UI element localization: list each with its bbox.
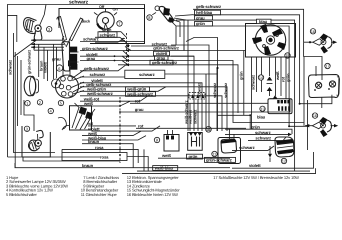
wire rosa 1 — [62, 145, 138, 163]
wire arrow into 13 — [273, 96, 277, 99]
wire grau mid — [80, 55, 233, 113]
connector dashed mid — [126, 33, 128, 66]
wire left vertical 2 — [14, 33, 56, 153]
callout 6 — [56, 65, 62, 71]
svg-text:gelb-schwarz: gelb-schwarz — [196, 4, 221, 9]
callout 14 — [258, 75, 264, 80]
connector dashed box center — [189, 93, 205, 99]
rear blinker 16 bottom — [305, 117, 338, 137]
wire weiss-rot left bundle — [80, 96, 148, 102]
wire weiss label bottom mid — [158, 153, 230, 158]
callout 2 — [37, 100, 42, 105]
wire tail feeds — [309, 66, 332, 108]
callout 11 — [212, 151, 217, 156]
callout 12 — [281, 158, 287, 163]
svg-text:16 Blinkleuchte hinten 12V 5W: 16 Blinkleuchte hinten 12V 5W — [127, 192, 178, 197]
wire verticals to headlamp — [34, 44, 57, 81]
rear blinker 16 top — [309, 34, 337, 54]
wire gelb-schwarz mid — [118, 60, 238, 113]
wire gruen top right — [176, 21, 308, 126]
wire braun bottom bus — [15, 163, 230, 168]
svg-text:grün-schwarz: grün-schwarz — [27, 50, 32, 74]
horn 1 — [24, 76, 60, 96]
wire grau top right — [176, 15, 295, 104]
wire gelb-schwarz left bundle — [80, 65, 126, 71]
svg-text:schwarz: schwarz — [239, 145, 255, 150]
front blinker 3 bottom box — [22, 126, 50, 157]
wire mid verticals to rear — [300, 103, 309, 105]
callout 8 — [147, 15, 152, 20]
callout 5 — [58, 100, 63, 105]
junction dots lower connector — [119, 100, 121, 156]
legend column 2 — [81, 175, 119, 197]
callout 10 — [206, 127, 212, 133]
svg-text:blau: blau — [259, 19, 268, 24]
wire schwarz boxed left bundle — [80, 68, 217, 131]
svg-text:schwarz: schwarz — [212, 83, 217, 98]
regulator blob 12 — [275, 137, 294, 157]
svg-text:schwarz: schwarz — [8, 60, 13, 75]
wire left arrows to switch — [31, 40, 64, 50]
callout 16 bottom — [312, 113, 318, 118]
magneto enclosure 15 — [246, 24, 296, 58]
connector block dark — [68, 60, 77, 66]
wire gruen from switch — [99, 27, 121, 32]
wire gelb-schwarz top right — [193, 4, 304, 42]
wire weiss left bundle — [80, 101, 130, 106]
label blau magneto — [257, 19, 272, 24]
wire gelb-schwarz 2 left bundle — [80, 82, 227, 131]
wire schwarz line 2 near 12 — [248, 135, 286, 140]
legend column 1 — [6, 175, 68, 197]
svg-text:grün-schwarz: grün-schwarz — [153, 46, 179, 51]
callout 16 top — [310, 29, 316, 34]
headlamp 2 with connector — [56, 67, 85, 98]
front blinker 3 top — [24, 5, 46, 41]
svg-text:Off: Off — [99, 5, 105, 9]
wire arrow small into 13 left — [274, 96, 277, 99]
callout 17 — [325, 63, 331, 68]
wire schwarz upper mid — [80, 36, 144, 41]
wire verticals from lever bus down — [176, 20, 188, 56]
callout 3 — [47, 27, 52, 32]
svg-text:rosa: rosa — [100, 155, 109, 160]
legend column 4 — [213, 175, 299, 180]
svg-text:weiß-blau: weiß-blau — [154, 166, 174, 171]
svg-text:schwarz: schwarz — [255, 135, 271, 140]
svg-text:weiß-schwarz: weiß-schwarz — [86, 91, 113, 96]
wire weiss-schwarz left bundle — [80, 91, 222, 131]
svg-text:grau: grau — [196, 15, 205, 20]
wire rosa loop left — [62, 149, 144, 171]
wire magneto down leads — [252, 57, 287, 115]
svg-text:5 Blinklichtschalter: 5 Blinklichtschalter — [6, 192, 38, 197]
wire schwarz line 3 near 12 — [232, 145, 274, 150]
svg-text:rot: rot — [135, 99, 141, 104]
svg-text:violett: violett — [43, 61, 48, 73]
wire hell-blau top right — [193, 10, 300, 104]
svg-text:schwarz: schwarz — [250, 75, 255, 90]
spark plug 14 — [267, 57, 273, 96]
wire braun lower — [82, 139, 133, 168]
wire rosa 2 boxed — [62, 153, 148, 172]
wire weiss-blau bottom bus — [137, 166, 310, 172]
wire weiss-gruen left bundle — [80, 86, 166, 91]
svg-text:11 Gleichrichter Hupe: 11 Gleichrichter Hupe — [81, 192, 118, 197]
wire violett bottom right — [232, 152, 314, 168]
wire violett mid — [80, 51, 194, 62]
control lights cluster 4 — [70, 103, 96, 130]
legend column 3 — [127, 175, 181, 197]
electronics box 13 — [268, 99, 292, 114]
svg-text:braun: braun — [82, 163, 94, 168]
wire drop from switch to bus — [95, 29, 126, 42]
svg-text:violett: violett — [249, 163, 261, 168]
callout 9 — [154, 137, 159, 142]
connector arrows mid — [126, 45, 130, 67]
wire bottom left corners — [8, 40, 121, 168]
label gruen under 10 — [187, 154, 203, 159]
blinker switch 5 lever — [57, 17, 83, 72]
cable curves left of cluster — [58, 118, 70, 131]
ignition switch 7 — [94, 9, 117, 29]
wire left vertical 3 — [18, 56, 35, 131]
wire grau right mid — [120, 99, 290, 112]
junction dots misc — [249, 114, 251, 116]
callout 1 — [25, 101, 30, 106]
svg-text:hell-blau: hell-blau — [196, 10, 213, 15]
label gruen-schwarz under 11 — [205, 157, 236, 162]
wire weiss lower — [82, 131, 141, 136]
svg-text:rot: rot — [138, 123, 144, 128]
callout 13 — [260, 106, 266, 111]
wire magneto left connects — [217, 51, 252, 130]
svg-text:schwarz: schwarz — [83, 36, 99, 41]
wire gruen mid right — [225, 125, 292, 134]
svg-text:gelb-schwarz: gelb-schwarz — [84, 66, 109, 71]
callout 7 — [117, 21, 122, 26]
svg-text:grün: grün — [238, 71, 243, 80]
wire schwarz mid right with arrow — [225, 133, 292, 136]
fuel sender box 10 — [188, 133, 203, 151]
wire violett lower — [88, 126, 160, 131]
flasher box 9 — [164, 130, 179, 151]
connector dashed lower — [119, 97, 121, 163]
svg-text:schwarz: schwarz — [90, 72, 106, 77]
svg-text:schwarz: schwarz — [223, 83, 228, 98]
wire violett left bundle — [80, 78, 202, 131]
wire rot lower right — [136, 123, 246, 128]
wire weiss-blau lower — [82, 135, 146, 140]
flywheel magneto 15 — [252, 24, 286, 55]
callout 15 — [285, 53, 291, 58]
svg-text:schwarz: schwarz — [100, 32, 116, 37]
svg-text:grün: grün — [196, 21, 205, 26]
wire slants from lever 8 — [172, 15, 193, 26]
wire schwarz top bus — [8, 0, 146, 157]
svg-text:weiß: weiß — [161, 153, 171, 158]
svg-text:weiß-rot: weiß-rot — [189, 109, 193, 125]
wire rot lower left — [88, 121, 137, 126]
front blinker 3 bottom — [29, 130, 44, 150]
svg-text:grau: grau — [135, 107, 144, 112]
wire verticals center — [171, 38, 218, 132]
wire gruen-schwarz mid — [80, 46, 244, 116]
callout 4 — [48, 108, 53, 113]
wire rot right mid — [130, 99, 268, 104]
svg-text:blau: blau — [257, 115, 266, 120]
svg-text:17 Schlußleuchte 12V 5W / Brem: 17 Schlußleuchte 12V 5W / Bremsleuchte 1… — [213, 175, 299, 180]
wire blinker frame corner — [8, 15, 17, 42]
connector stack dark blocks — [70, 47, 79, 70]
svg-text:schwarz: schwarz — [69, 0, 89, 6]
svg-text:On: On — [113, 8, 119, 12]
wire arrow down at coil — [268, 154, 272, 158]
svg-text:gelb-schwarz: gelb-schwarz — [152, 60, 177, 65]
wire schwarz from switch — [95, 32, 120, 38]
wire schwarz mid label right — [131, 42, 176, 47]
wire vertical right mid — [304, 57, 308, 151]
wire gelb-schwarz down right — [304, 42, 322, 73]
junction dot 217 — [216, 67, 218, 69]
wire bottom frame right — [122, 168, 316, 173]
callout 3 bottom — [24, 126, 29, 131]
brake lever switch 8 top — [152, 6, 174, 23]
wire into rectifier — [229, 129, 234, 140]
wire risers to mid labels — [122, 42, 131, 65]
svg-text:schwarz: schwarz — [139, 72, 155, 77]
rectifier box 11 — [218, 138, 241, 164]
ignition switch enclosure U7 — [59, 5, 145, 44]
wire grau to tail — [233, 113, 304, 123]
svg-text:grün: grün — [103, 27, 112, 32]
tail light 17 — [309, 75, 340, 98]
svg-text:weiß: weiß — [83, 101, 93, 106]
